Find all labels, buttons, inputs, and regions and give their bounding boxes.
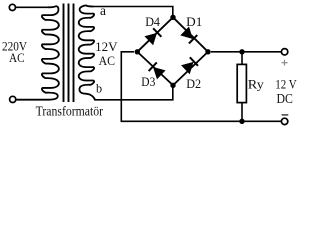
wire a-rail top xyxy=(93,7,173,18)
junction dot bottom vertex xyxy=(170,83,175,88)
svg-text:b: b xyxy=(96,82,102,96)
svg-text:Ry: Ry xyxy=(248,77,265,91)
diode D2 xyxy=(181,57,198,74)
svg-text:12 V: 12 V xyxy=(275,78,297,92)
transformer secondary winding L2 (7 loops, bulge left) with b exit xyxy=(79,5,95,99)
transformer primary winding L1 (7 loops, bulge right) with bottom wire xyxy=(16,6,59,100)
bridge diamond arms xyxy=(137,17,208,85)
svg-text:a: a xyxy=(100,3,106,18)
resistor Ry stub top xyxy=(241,52,243,65)
wire minus-path: left vertex left, down, bottom rail to - terminal xyxy=(121,52,281,122)
resistor Ry stub bottom xyxy=(241,103,243,122)
resistor Ry body xyxy=(237,64,246,102)
minus sign xyxy=(282,114,289,116)
svg-text:D1: D1 xyxy=(186,15,202,29)
wire primary top xyxy=(16,6,49,8)
junction dot top vertex xyxy=(170,15,175,20)
junction dot right vertex xyxy=(205,49,210,54)
wire b-rail bottom xyxy=(95,85,173,100)
wire plus-rail: right vertex to + terminal xyxy=(211,51,281,53)
svg-text:Transformatör: Transformatör xyxy=(36,104,104,119)
junction dot left vertex xyxy=(135,49,140,54)
svg-text:AC: AC xyxy=(99,54,115,68)
terminal 220V top-left xyxy=(9,4,15,10)
diode D1 xyxy=(181,27,198,44)
svg-text:DC: DC xyxy=(277,91,293,106)
diode D4 xyxy=(145,28,162,45)
terminal 220V bottom-left xyxy=(10,96,16,102)
plus sign xyxy=(282,60,288,66)
junction dot resistor top xyxy=(239,49,244,54)
svg-text:D2: D2 xyxy=(186,77,201,91)
svg-text:AC: AC xyxy=(9,51,25,65)
diode D3 xyxy=(149,62,166,79)
svg-text:D4: D4 xyxy=(145,15,160,29)
junction dot resistor bottom xyxy=(239,119,244,124)
svg-text:12V: 12V xyxy=(95,40,118,54)
transformer core xyxy=(63,4,65,103)
terminal + output xyxy=(281,49,287,55)
terminal - output xyxy=(281,118,287,124)
svg-text:D3: D3 xyxy=(141,75,155,89)
